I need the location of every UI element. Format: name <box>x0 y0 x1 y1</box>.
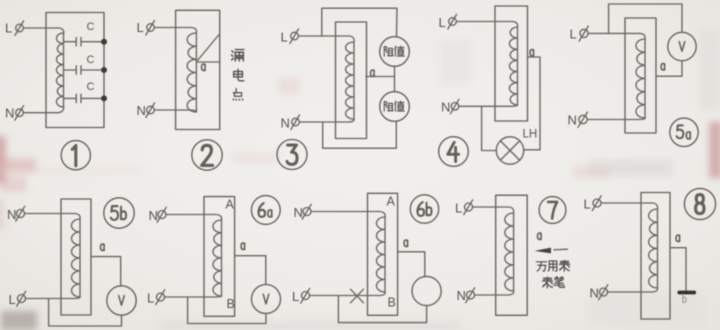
ohmmeter M1 (zu zhi) <box>380 37 410 67</box>
outer loop bottom branch circuit3 <box>323 121 397 148</box>
node a circuit7 <box>538 233 542 239</box>
terminal L circuit5a <box>570 26 589 41</box>
winding T5a <box>636 39 645 118</box>
text multimeter (wan yong biao) <box>536 260 569 271</box>
terminal L circuit6a <box>147 290 165 306</box>
winding T3 <box>346 42 354 119</box>
winding T6b <box>377 217 386 292</box>
outer loop top branch circuit3 <box>322 8 397 37</box>
winding T5b <box>72 219 81 297</box>
wire L6b branch to meter <box>338 296 426 323</box>
svg-text:N: N <box>7 207 16 222</box>
voltmeter V circuit6a <box>252 285 281 314</box>
leakage notch line <box>198 61 220 63</box>
svg-text:N: N <box>457 288 466 303</box>
node a circuit4 <box>530 50 534 56</box>
winding T1 <box>56 33 63 107</box>
wire N4 branch to lamp <box>482 106 497 150</box>
label circle 3 <box>277 140 307 170</box>
terminal L circuit3 <box>281 29 299 45</box>
svg-text:N: N <box>149 208 158 223</box>
text leakage point (lou dian dian) <box>231 50 244 101</box>
node a circuit8 <box>676 235 680 241</box>
capacitor C3 <box>64 81 105 103</box>
label circle 6a <box>251 196 280 225</box>
terminal L circuit1 <box>5 21 24 36</box>
wire L8 <box>601 203 658 209</box>
svg-text:N: N <box>5 106 14 121</box>
svg-text:A: A <box>387 195 396 209</box>
node a circuit3 <box>371 70 375 76</box>
wire N4 <box>459 105 518 106</box>
wire L3 <box>298 36 354 42</box>
terminal N circuit5b <box>7 206 25 222</box>
terminal N circuit3 <box>281 115 300 131</box>
node a circuit5b <box>101 244 105 250</box>
wire N3 <box>299 119 354 122</box>
node a circuit2 <box>202 64 206 70</box>
capacitor C1 <box>64 21 105 46</box>
svg-text:B: B <box>388 296 396 310</box>
svg-text:C: C <box>87 81 95 93</box>
tap wire a circuit5a <box>656 62 682 77</box>
svg-text:L: L <box>5 21 12 36</box>
winding T6a <box>213 220 222 296</box>
svg-text:L: L <box>439 15 446 30</box>
box T8 <box>641 193 670 320</box>
box T6a <box>204 197 235 317</box>
wire N2 <box>154 110 196 112</box>
terminal N circuit5a <box>568 112 588 127</box>
terminal N circuit1 <box>5 106 24 121</box>
box T5a <box>625 18 656 133</box>
box T4 <box>495 6 528 121</box>
junction dot <box>101 39 107 45</box>
svg-text:N: N <box>137 103 146 118</box>
wire L5b branch to voltmeter <box>49 299 122 327</box>
label circle 1 <box>61 141 90 170</box>
svg-text:L: L <box>281 30 288 45</box>
wire L2 <box>154 28 196 34</box>
terminal L circuit2 <box>137 20 155 35</box>
svg-text:L: L <box>137 20 144 35</box>
winding T2 <box>187 33 196 112</box>
svg-text:L: L <box>570 27 577 42</box>
svg-text:N: N <box>294 205 303 220</box>
tap wire a circuit6a <box>235 256 266 285</box>
wire L7 <box>473 207 514 213</box>
loop wire to voltmeter circuit5a <box>609 4 682 33</box>
tap wire a circuit4 to lamp <box>524 57 540 150</box>
svg-text:L: L <box>147 291 154 306</box>
label circle 5b <box>104 198 134 228</box>
wire N8 <box>608 288 658 292</box>
terminal L circuit8 <box>584 196 602 212</box>
wire N5b <box>25 214 81 220</box>
svg-text:C: C <box>87 54 95 66</box>
tap wire a circuit6b <box>398 252 425 277</box>
svg-text:L: L <box>9 292 16 307</box>
terminal N circuit2 <box>137 103 155 118</box>
label circle 8 <box>684 188 715 219</box>
terminal L circuit4 <box>439 15 457 31</box>
winding T7 <box>505 213 514 291</box>
svg-text:B: B <box>227 297 235 311</box>
wire L1 <box>23 28 63 34</box>
terminal N circuit6b <box>294 204 312 220</box>
terminal L circuit5b <box>9 291 26 307</box>
box T5b <box>61 199 91 315</box>
svg-text:L: L <box>455 201 462 216</box>
inner box T3 <box>336 22 367 139</box>
terminal N circuit6a <box>149 207 167 223</box>
svg-text:A: A <box>226 198 235 212</box>
wire L6b <box>310 292 386 296</box>
svg-text:L: L <box>584 197 591 212</box>
terminal L circuit6b <box>292 288 310 304</box>
tap wire a circuit8 <box>670 248 686 291</box>
wire L6a <box>165 296 222 297</box>
junction dot <box>101 95 107 101</box>
probe arrow circuit7 <box>535 248 568 254</box>
svg-text:C: C <box>87 21 95 33</box>
tap wire a circuit5b <box>91 257 121 286</box>
node a circuit5a <box>661 64 665 70</box>
winding T8 <box>649 209 658 288</box>
voltmeter V circuit5b <box>107 286 136 315</box>
terminal N circuit7 <box>457 288 475 303</box>
box T6b <box>368 193 398 315</box>
wire L6a branch to voltmeter <box>188 297 266 324</box>
tap wire a circuit3 <box>366 67 395 92</box>
terminal N circuit8 <box>590 285 608 301</box>
label circle 2 <box>192 140 222 170</box>
wire L4 <box>456 22 517 28</box>
label circle 7 <box>539 197 566 224</box>
svg-text:LH: LH <box>523 129 538 141</box>
junction dot <box>101 67 107 73</box>
wire L5a <box>588 33 645 39</box>
wire L5b <box>26 297 81 299</box>
box T1 <box>46 13 104 128</box>
box T2 <box>176 10 220 129</box>
svg-text:N: N <box>441 100 450 115</box>
text probe (biao bi) <box>542 277 564 288</box>
node a circuit6b <box>404 240 408 246</box>
terminal N circuit4 <box>441 99 459 114</box>
wire N6a <box>166 215 222 221</box>
svg-text:L: L <box>292 289 299 304</box>
wire N7 <box>475 291 514 295</box>
svg-text:N: N <box>568 113 577 128</box>
probe bar circuit8 <box>678 291 697 295</box>
wire N6b <box>311 212 385 218</box>
capacitor C2 <box>64 54 105 74</box>
node b circuit8 <box>683 294 686 302</box>
leakage pointer diagonal <box>198 34 220 61</box>
label circle 5a <box>670 118 698 146</box>
voltmeter V circuit5a <box>668 32 696 60</box>
svg-text:N: N <box>281 116 290 131</box>
ohmmeter M2 (zu zhi) <box>380 92 410 122</box>
label circle 6b <box>410 195 438 223</box>
label circle 4 <box>439 137 469 167</box>
lamp LH <box>496 129 537 165</box>
wire N5a <box>587 118 645 120</box>
svg-text:N: N <box>590 286 599 301</box>
node a circuit6a <box>241 243 245 249</box>
meter circle circuit6b <box>412 276 441 305</box>
terminal L circuit7 <box>455 200 473 216</box>
wire N1 <box>24 106 64 113</box>
break X mark circuit6b <box>351 289 364 303</box>
winding T4 <box>509 27 517 105</box>
box T7 <box>496 195 528 315</box>
